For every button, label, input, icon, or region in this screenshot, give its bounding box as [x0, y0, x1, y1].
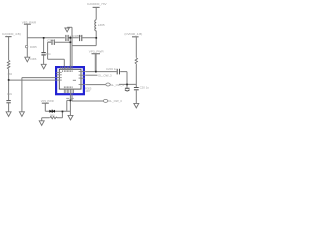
svg-text:VP3_PWR: VP3_PWR	[41, 99, 54, 103]
svg-text:VP3_PWR: VP3_PWR	[89, 49, 105, 53]
svg-text:C204 1u: C204 1u	[106, 67, 117, 71]
svg-text:VP3_PWR: VP3_PWR	[22, 20, 37, 24]
svg-text:C20 1u: C20 1u	[140, 86, 150, 90]
svg-text:C304: C304	[47, 39, 55, 43]
svg-text:104: 104	[46, 52, 51, 56]
svg-text:CAVDD0_73V: CAVDD0_73V	[87, 2, 107, 6]
svg-text:C306: C306	[30, 57, 37, 61]
svg-text:C305 1: C305 1	[72, 34, 81, 38]
svg-text:L305: L305	[98, 23, 105, 27]
svg-text:C2(OD0_4.B): C2(OD0_4.B)	[2, 32, 21, 36]
svg-text:GL_OW_3: GL_OW_3	[110, 83, 124, 87]
svg-text:GL_OW_3: GL_OW_3	[98, 73, 112, 77]
svg-text:D305: D305	[30, 45, 37, 49]
svg-text:DL_OW_3: DL_OW_3	[108, 99, 122, 103]
svg-text:0R0: 0R0	[50, 115, 55, 118]
svg-text:4R7: 4R7	[85, 89, 90, 93]
svg-text:C31: C31	[7, 92, 12, 96]
svg-text:(CVD00_4.B): (CVD00_4.B)	[124, 32, 142, 36]
svg-text:1K0: 1K0	[7, 72, 12, 76]
